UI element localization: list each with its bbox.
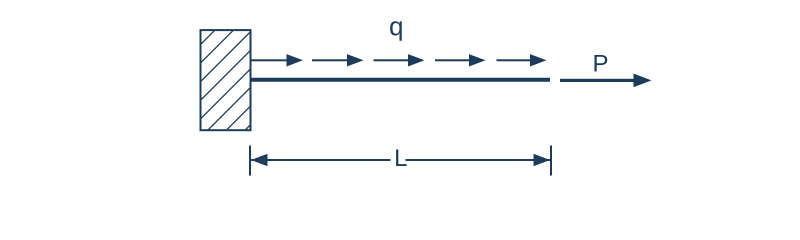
wall border bbox=[201, 30, 251, 130]
distributed load arrow 4 bbox=[435, 54, 486, 66]
fixed support wall (hatched rectangle) bbox=[201, 30, 251, 130]
hatch line 2 bbox=[201, 30, 234, 63]
distributed load arrow 3 bbox=[374, 54, 425, 66]
dimension line left segment bbox=[251, 159, 391, 161]
label P bbox=[594, 55, 607, 72]
label q bbox=[390, 21, 402, 40]
dimension right tick bbox=[550, 146, 552, 176]
force P arrow bbox=[560, 74, 652, 88]
dimension arrowhead right bbox=[534, 154, 551, 166]
hatch line 5 bbox=[201, 69, 251, 119]
hatch line 8 bbox=[245, 125, 251, 131]
hatch line 7 bbox=[226, 106, 250, 130]
hatch line 3 bbox=[201, 32, 251, 82]
hatch line 6 bbox=[208, 88, 251, 131]
distributed load arrow 5 bbox=[497, 54, 547, 66]
dimension left tick bbox=[249, 146, 251, 176]
beam (bar) bbox=[250, 78, 550, 82]
dimension arrowhead left bbox=[251, 154, 268, 166]
label L bbox=[396, 149, 407, 166]
hatch line 1 bbox=[201, 30, 215, 44]
hatch line 4 bbox=[201, 50, 251, 100]
distributed load arrow 1 bbox=[250, 54, 303, 66]
dimension line right segment bbox=[406, 159, 551, 161]
distributed load arrow 2 bbox=[312, 54, 364, 66]
